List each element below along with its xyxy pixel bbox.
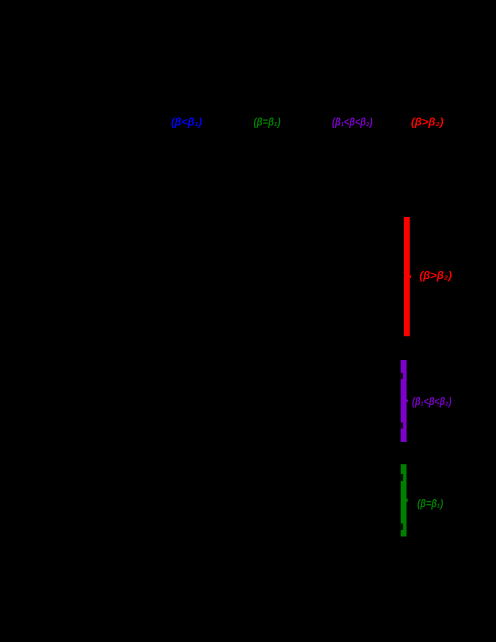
black tick notch over green bar (y=526) [401,524,403,531]
svg-text:(β<β₁): (β<β₁) [171,117,202,129]
green bar midpoint nub [407,499,408,503]
purple interval bar [401,360,407,442]
svg-text:(β>β₂): (β>β₂) [411,117,444,129]
red interval bar [404,217,410,336]
svg-text:(β=β₁): (β=β₁) [254,117,281,129]
black tick notch over purple bar (y=425.5) [401,423,403,429]
green interval bar [401,464,407,536]
svg-text:(β=β₁): (β=β₁) [417,498,443,510]
black tick notch over purple bar (y=376) [401,373,403,379]
purple bar midpoint nub [407,400,408,403]
svg-text:(β₁<β<β₂): (β₁<β<β₂) [412,396,452,408]
black tick notch over green bar (y=477) [401,474,403,481]
svg-text:(β>β₂): (β>β₂) [419,270,452,282]
red bar midpoint nub [410,275,411,278]
svg-text:(β₁<β<β₂): (β₁<β<β₂) [332,117,373,129]
